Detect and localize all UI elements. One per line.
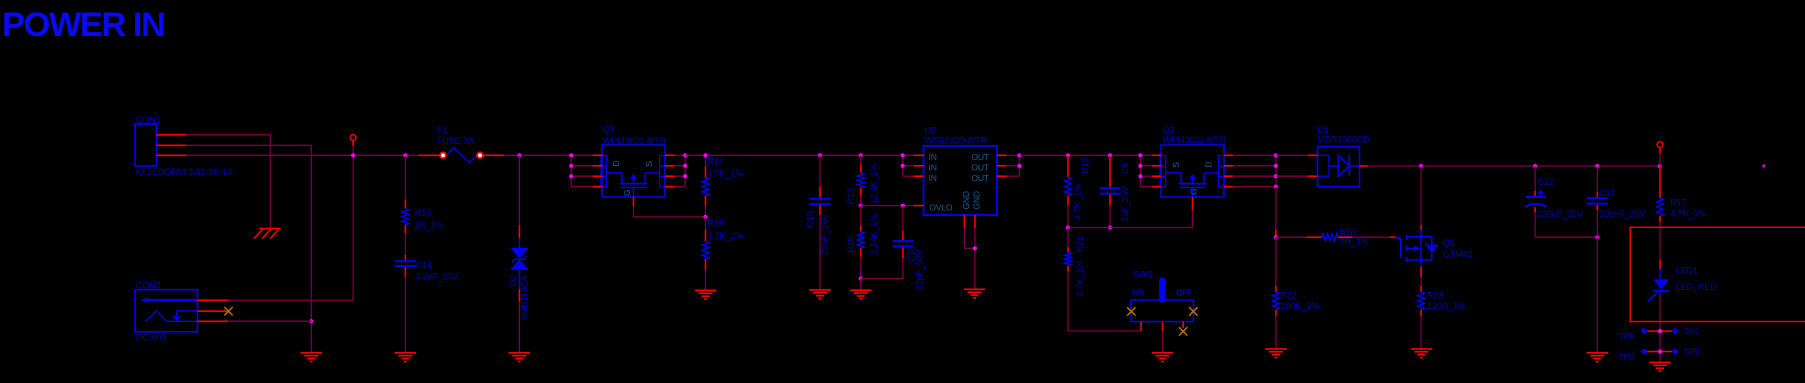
svg-text:R19: R19 [846, 236, 856, 252]
svg-text:R16: R16 [415, 208, 431, 218]
svg-text:G: G [1189, 188, 1199, 195]
svg-text:4.7K_1%: 4.7K_1% [1670, 209, 1706, 219]
svg-text:DC-005: DC-005 [136, 333, 167, 343]
svg-text:4.7K_1%: 4.7K_1% [707, 168, 743, 178]
svg-text:TP6: TP6 [1618, 332, 1634, 342]
svg-text:LED1: LED1 [1676, 266, 1698, 276]
svg-text:D: D [611, 161, 621, 167]
svg-text:OVLO: OVLO [929, 203, 953, 213]
svg-text:22pF_50V: 22pF_50V [915, 248, 925, 290]
svg-text:C9: C9 [1120, 163, 1130, 174]
svg-text:IN: IN [929, 162, 937, 172]
svg-text:22uF_25V: 22uF_25V [820, 213, 830, 255]
svg-text:R22: R22 [1281, 291, 1297, 301]
svg-text:POWER IN: POWER IN [2, 6, 164, 44]
svg-text:C12: C12 [1537, 177, 1553, 187]
svg-text:CJ3401: CJ3401 [1443, 249, 1474, 259]
svg-text:WPM3021-8/TR: WPM3021-8/TR [603, 136, 667, 146]
svg-text:WPM3021-8/TR: WPM3021-8/TR [1163, 135, 1227, 145]
svg-text:120R_1%: 120R_1% [1427, 301, 1466, 311]
svg-text:D: D [1204, 162, 1214, 168]
svg-text:IN: IN [929, 173, 937, 183]
svg-text:220uF_35V: 220uF_35V [1537, 209, 1584, 219]
svg-text:FUSE 3A: FUSE 3A [437, 136, 475, 146]
svg-text:R21: R21 [1075, 236, 1085, 252]
svg-text:1.24K_1%: 1.24K_1% [869, 214, 879, 255]
svg-text:R14: R14 [707, 156, 723, 166]
svg-text:GND: GND [971, 191, 981, 210]
svg-text:R23: R23 [1427, 291, 1443, 301]
svg-text:SW1: SW1 [1133, 269, 1152, 279]
svg-text:R13: R13 [846, 188, 856, 204]
svg-text:12.4K_1%: 12.4K_1% [869, 164, 879, 205]
svg-text:2R_1%: 2R_1% [415, 221, 444, 231]
svg-text:OUT: OUT [971, 162, 989, 172]
svg-text:C14: C14 [416, 260, 432, 270]
svg-text:TP7: TP7 [1683, 327, 1699, 337]
svg-text:Q2: Q2 [1163, 125, 1175, 135]
svg-text:S: S [644, 161, 654, 167]
svg-text:SMBJ16CA: SMBJ16CA [520, 274, 530, 321]
svg-text:R17: R17 [1670, 198, 1686, 208]
svg-text:C10: C10 [805, 211, 815, 227]
svg-text:D2: D2 [508, 275, 518, 286]
svg-text:R18: R18 [707, 218, 723, 228]
svg-text:F1: F1 [437, 125, 447, 135]
svg-text:R15: R15 [1081, 157, 1091, 173]
svg-text:MBR1060CD: MBR1060CD [1317, 135, 1370, 145]
svg-text:Q3: Q3 [1443, 238, 1455, 248]
svg-text:OFF: OFF [1176, 289, 1192, 298]
svg-text:U2: U2 [925, 126, 936, 136]
svg-text:D1: D1 [1317, 125, 1328, 135]
svg-text:100nF_25V: 100nF_25V [1599, 209, 1646, 219]
svg-text:ON: ON [1132, 289, 1144, 298]
svg-text:C11: C11 [1599, 188, 1615, 198]
svg-text:G: G [622, 189, 632, 196]
svg-text:2.2uF_25V: 2.2uF_25V [416, 271, 460, 281]
svg-text:4.7K_1%: 4.7K_1% [707, 231, 743, 241]
svg-text:LED_RED: LED_RED [1676, 282, 1718, 292]
svg-text:100K_1%: 100K_1% [1281, 301, 1319, 311]
svg-text:OUT: OUT [971, 173, 989, 183]
svg-text:CON1: CON1 [136, 115, 161, 125]
svg-text:KF2EDGRM-3.81-3P-14: KF2EDGRM-3.81-3P-14 [136, 167, 232, 177]
svg-text:TP9: TP9 [1683, 347, 1699, 357]
svg-text:CON3: CON3 [136, 281, 161, 291]
svg-text:WS3222D-8/TR: WS3222D-8/TR [925, 135, 988, 145]
svg-text:Q1: Q1 [603, 125, 615, 135]
svg-text:4.7K_1%: 4.7K_1% [1073, 184, 1083, 220]
svg-text:S: S [1171, 162, 1181, 168]
svg-text:1uF_25V: 1uF_25V [1120, 185, 1130, 222]
svg-text:OUT: OUT [971, 152, 989, 162]
svg-text:GND: GND [961, 191, 971, 210]
svg-text:TP8: TP8 [1618, 353, 1634, 363]
svg-text:0R_1%: 0R_1% [1339, 236, 1368, 246]
svg-text:IN: IN [929, 152, 937, 162]
svg-text:4.7K_1%: 4.7K_1% [1075, 261, 1085, 297]
